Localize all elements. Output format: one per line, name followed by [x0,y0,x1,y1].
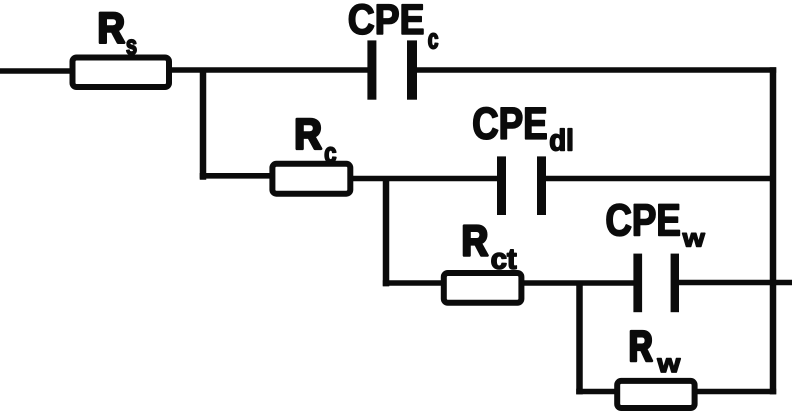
resistor Rc [272,164,350,194]
wire vertical node B down [383,179,390,287]
wire right bus vertical [770,67,777,394]
capacitor CPEw right plate [671,254,679,313]
wire row4 Rw to right bus [695,389,776,395]
wire row1 Rs to CPEc [170,67,369,73]
capacitor CPEdl right plate [537,156,546,215]
capacitor CPEc left plate [367,40,376,99]
wire row3 left [383,280,443,286]
wire row3 CPEw to right edge [678,280,792,286]
label Rw [631,331,652,361]
wire row4 left [576,389,617,395]
label Rs [100,13,124,43]
label Rc [297,119,321,149]
wire row2 CPEdl to right bus [545,176,772,182]
wire row3 Rct to CPEw [522,280,634,286]
label CPEdl [474,107,547,139]
resistor Rw [617,381,694,408]
label Rct [464,226,487,256]
wire row2 left [200,173,272,179]
capacitor CPEdl left plate [497,156,506,215]
capacitor CPEw left plate [633,254,642,313]
label CPEw [607,204,680,236]
wire vertical node C down [576,283,583,394]
resistor Rs [73,58,170,88]
wire vertical node A down [200,70,207,180]
label CPEc [349,4,423,34]
capacitor CPEc right plate [407,40,417,99]
wire row2 Rc to CPEdl [351,176,498,182]
wire row1 left lead [0,68,72,74]
resistor Rct [444,273,522,303]
wire row1 CPEc to right bus [415,67,776,73]
